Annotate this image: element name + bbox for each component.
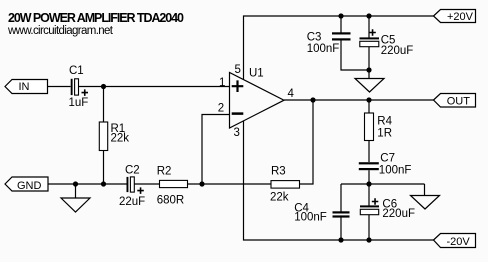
svg-text:GND: GND [17,180,42,192]
wire C5 bottom to ground [368,47,370,79]
wire rail to C5 [368,16,370,38]
label C1 polarity + [82,89,89,96]
wire C1 to op-amp pin 1 [79,86,230,88]
wire pin 5 to +20V rail [244,16,434,80]
capacitor C4 [333,211,350,217]
resistor R1 [99,122,107,151]
wire C3 bottom to ground node [341,41,369,71]
svg-text:C7: C7 [380,152,395,164]
wire output to R4 [368,100,370,113]
wire node A down to R1 [103,87,105,123]
wire C4 to -20V rail [340,218,342,241]
connector OUT [434,94,476,108]
svg-text:1: 1 [219,77,225,89]
svg-text:20W POWER AMPLIFIER TDA2040: 20W POWER AMPLIFIER TDA2040 [8,11,184,25]
svg-text:R2: R2 [157,166,172,178]
wire GND to C2 [48,183,127,185]
svg-text:3: 3 [234,127,240,139]
label C5 polarity + [369,29,376,36]
wire pin 2 to feedback node [202,115,230,185]
svg-text:R4: R4 [377,115,392,127]
junction dot zobel ground node [366,181,371,186]
svg-text:IN: IN [19,81,30,93]
ground symbol (bottom right) [411,196,440,210]
wire node to C4 [340,184,342,212]
capacitor C7 [359,162,379,170]
resistor R4 [365,113,374,141]
capacitor C2 [127,177,135,192]
junction dot C4 bottom [338,237,343,242]
wire R3 to output node [300,100,314,184]
svg-text:680R: 680R [157,195,185,207]
capacitor C5 [360,37,380,46]
svg-text:100nF: 100nF [379,164,412,176]
svg-text:4: 4 [288,88,295,100]
wire IN to C1 [48,86,71,88]
resistor R2 [160,180,188,187]
connector IN [5,80,48,94]
wire node to C6 [368,184,370,206]
junction dot feedback tap [310,97,315,102]
svg-text:OUT: OUT [447,95,471,107]
junction dot ground stub [73,181,78,186]
connector GND [5,177,48,192]
wire C6 to -20V rail [368,215,370,240]
capacitor C3 [332,32,351,40]
junction dot R1 bottom [101,181,106,186]
svg-text:C3: C3 [307,31,322,43]
svg-text:+20V: +20V [447,11,474,23]
junction dot zobel tap [366,97,371,102]
wire C7 to zobel ground node [368,170,370,184]
wire rail to C3 [340,16,342,33]
ground symbol (left) [61,198,90,212]
svg-text:22k: 22k [111,132,130,144]
svg-text:1R: 1R [377,127,392,139]
connector +20V [434,10,476,24]
wire op-amp output to OUT [284,99,434,101]
junction dot C5 top [366,13,371,18]
wire R1 to ground rail [103,151,105,185]
label C2 polarity + [137,187,144,194]
ground symbol (top right) [355,79,384,93]
svg-text:220uF: 220uF [381,45,414,57]
connector -20V [434,234,476,248]
wire R4 to C7 [368,141,370,163]
wire down to ground symbol [75,184,77,198]
svg-text:R3: R3 [271,165,286,177]
svg-text:C2: C2 [125,165,140,177]
svg-text:100nF: 100nF [307,43,340,55]
capacitor C6 [360,205,379,214]
svg-text:2: 2 [218,103,224,115]
svg-text:C1: C1 [69,65,84,77]
junction dot supply decoupling ground node [366,67,371,72]
svg-text:www.circuitdiagram.net: www.circuitdiagram.net [7,25,114,37]
junction dot C6 bottom [366,237,371,242]
svg-text:-20V: -20V [447,236,471,248]
svg-text:220uF: 220uF [382,208,415,220]
svg-text:1uF: 1uF [69,97,89,109]
node A junction dot (input node) [101,84,106,89]
wire down to ground symbol (bottom right) [424,184,426,196]
svg-text:22k: 22k [270,191,289,203]
label C6 polarity + [372,198,379,205]
svg-text:U1: U1 [249,68,264,80]
wire C2 to R2 [135,183,160,185]
resistor R3 [271,181,300,189]
svg-text:5: 5 [235,64,241,76]
svg-text:22uF: 22uF [119,196,145,208]
op-amp U1 [230,73,285,129]
capacitor C1 [71,79,79,95]
junction dot feedback node [199,181,204,186]
wire R2 to R3 (feedback rail) [188,183,272,185]
wire pin 3 to -20V rail [244,121,434,240]
wire zobel node horizontal [341,183,425,185]
svg-text:100nF: 100nF [294,211,327,223]
junction dot C3 top [338,13,343,18]
